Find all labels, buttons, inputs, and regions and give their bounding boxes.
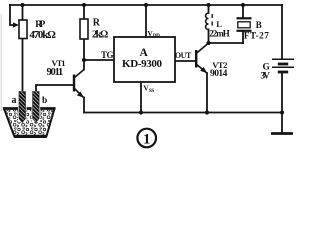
svg-text:1: 1 — [143, 131, 151, 147]
VT2 emitter arrow — [200, 67, 207, 73]
L core dashes — [211, 14, 213, 26]
wire RP bottom lead to electrode a — [22, 39, 24, 94]
svg-text:A: A — [140, 47, 149, 59]
node TG junction — [82, 58, 86, 62]
node B top — [241, 3, 245, 7]
wire R top lead — [83, 5, 85, 19]
transistor Q2 VT2 — [196, 44, 208, 74]
VT1 emitter arrow — [77, 92, 84, 98]
soil pot — [3, 109, 56, 137]
wire battery bottom to ground node — [281, 72, 283, 133]
scan edge artifact — [0, 14, 2, 112]
svg-text:b: b — [42, 96, 47, 106]
node VSS bottom — [139, 110, 143, 114]
node L top — [206, 3, 210, 7]
wire B bottom lead — [242, 31, 244, 43]
node RP top — [20, 3, 24, 7]
battery G 3V — [272, 59, 294, 72]
svg-text:9011: 9011 — [47, 67, 64, 78]
wire bottom rail — [84, 112, 282, 114]
wire OUT pin — [175, 60, 196, 62]
wire VT1 emitter down to bottom rail — [83, 98, 85, 113]
node VDD top — [144, 3, 148, 7]
wire VT2 emitter down to bottom rail — [206, 73, 208, 113]
piezo sounder B FT-27 — [237, 18, 252, 31]
wire TG pin — [84, 59, 114, 61]
wire L bottom lead — [208, 30, 210, 44]
wire left edge down to wiper — [10, 5, 15, 25]
node battery bottom — [280, 110, 284, 114]
svg-text:R: R — [93, 18, 101, 29]
electrode a — [18, 91, 27, 123]
wire VSS pin — [140, 82, 142, 113]
wire B top lead — [242, 5, 244, 18]
ground bar — [271, 132, 293, 135]
transistor Q1 VT1 — [74, 70, 84, 98]
wire RP top lead — [22, 5, 24, 20]
wire right edge to battery top — [281, 5, 283, 59]
electrode b — [32, 91, 41, 123]
node L/B/VT2 collector — [206, 41, 210, 45]
node R top — [82, 3, 86, 7]
potentiometer RP — [19, 20, 27, 39]
figure number circled 1 — [137, 129, 156, 148]
wire R bottom lead / TG node / VT1 collector riser — [83, 39, 85, 70]
svg-text:FT-27: FT-27 — [244, 30, 269, 40]
svg-text:a: a — [12, 95, 17, 106]
wire node L/B to VT2 collector — [209, 42, 244, 44]
RP wiper arrow — [13, 22, 19, 27]
wire electrode b to VT1 base — [36, 85, 73, 93]
inductor L coil — [206, 13, 209, 30]
svg-text:TG: TG — [101, 50, 114, 60]
wire L top lead — [208, 5, 210, 13]
svg-text:9014: 9014 — [210, 69, 228, 79]
svg-text:OUT: OUT — [175, 51, 192, 60]
IC A KD-9300 — [114, 37, 175, 82]
svg-text:3V: 3V — [261, 72, 271, 82]
svg-text:470kΩ: 470kΩ — [29, 29, 56, 41]
svg-text:22mH: 22mH — [209, 28, 230, 38]
node VT2 emitter bottom — [205, 110, 209, 114]
wire top rail — [10, 4, 282, 6]
svg-text:2kΩ: 2kΩ — [92, 30, 108, 41]
svg-text:KD-9300: KD-9300 — [122, 58, 163, 70]
resistor R — [80, 19, 88, 39]
svg-text:B: B — [256, 20, 262, 30]
wire VDD pin — [145, 5, 147, 37]
